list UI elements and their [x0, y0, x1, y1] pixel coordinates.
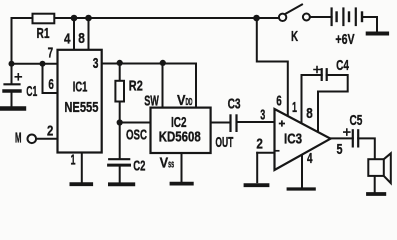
- svg-text:C3: C3: [228, 96, 241, 113]
- svg-text:7: 7: [48, 45, 54, 62]
- svg-text:K: K: [291, 28, 298, 45]
- svg-text:3: 3: [93, 55, 99, 72]
- svg-text:R2: R2: [129, 78, 143, 95]
- svg-text:5: 5: [337, 141, 343, 158]
- svg-text:C1: C1: [26, 83, 37, 100]
- svg-text:C2: C2: [133, 158, 145, 175]
- svg-text:6: 6: [276, 92, 282, 109]
- svg-text:IC3: IC3: [284, 131, 302, 148]
- svg-text:4: 4: [307, 150, 313, 167]
- svg-text:V: V: [160, 155, 169, 172]
- svg-text:OUT: OUT: [215, 134, 233, 151]
- svg-text:1: 1: [71, 152, 76, 169]
- svg-text:IC1: IC1: [73, 79, 88, 96]
- svg-text:1: 1: [292, 99, 297, 116]
- svg-text:+6V: +6V: [335, 31, 354, 48]
- svg-text:8: 8: [306, 105, 313, 122]
- svg-text:M: M: [15, 130, 22, 147]
- svg-text:OSC: OSC: [126, 126, 147, 143]
- svg-text:DD: DD: [186, 97, 193, 108]
- svg-text:6: 6: [48, 76, 54, 93]
- svg-text:KD5608: KD5608: [159, 129, 201, 146]
- svg-text:SW: SW: [144, 93, 159, 110]
- svg-text:V: V: [177, 92, 186, 109]
- svg-text:8: 8: [78, 30, 85, 47]
- svg-text:2: 2: [256, 135, 263, 152]
- svg-text:R1: R1: [37, 25, 50, 42]
- svg-text:2: 2: [47, 123, 53, 140]
- svg-text:C5: C5: [350, 112, 363, 129]
- svg-text:NE555: NE555: [64, 99, 98, 116]
- svg-text:3: 3: [260, 107, 265, 124]
- svg-text:C4: C4: [336, 57, 349, 74]
- svg-text:ss: ss: [168, 159, 174, 171]
- svg-text:4: 4: [64, 31, 71, 48]
